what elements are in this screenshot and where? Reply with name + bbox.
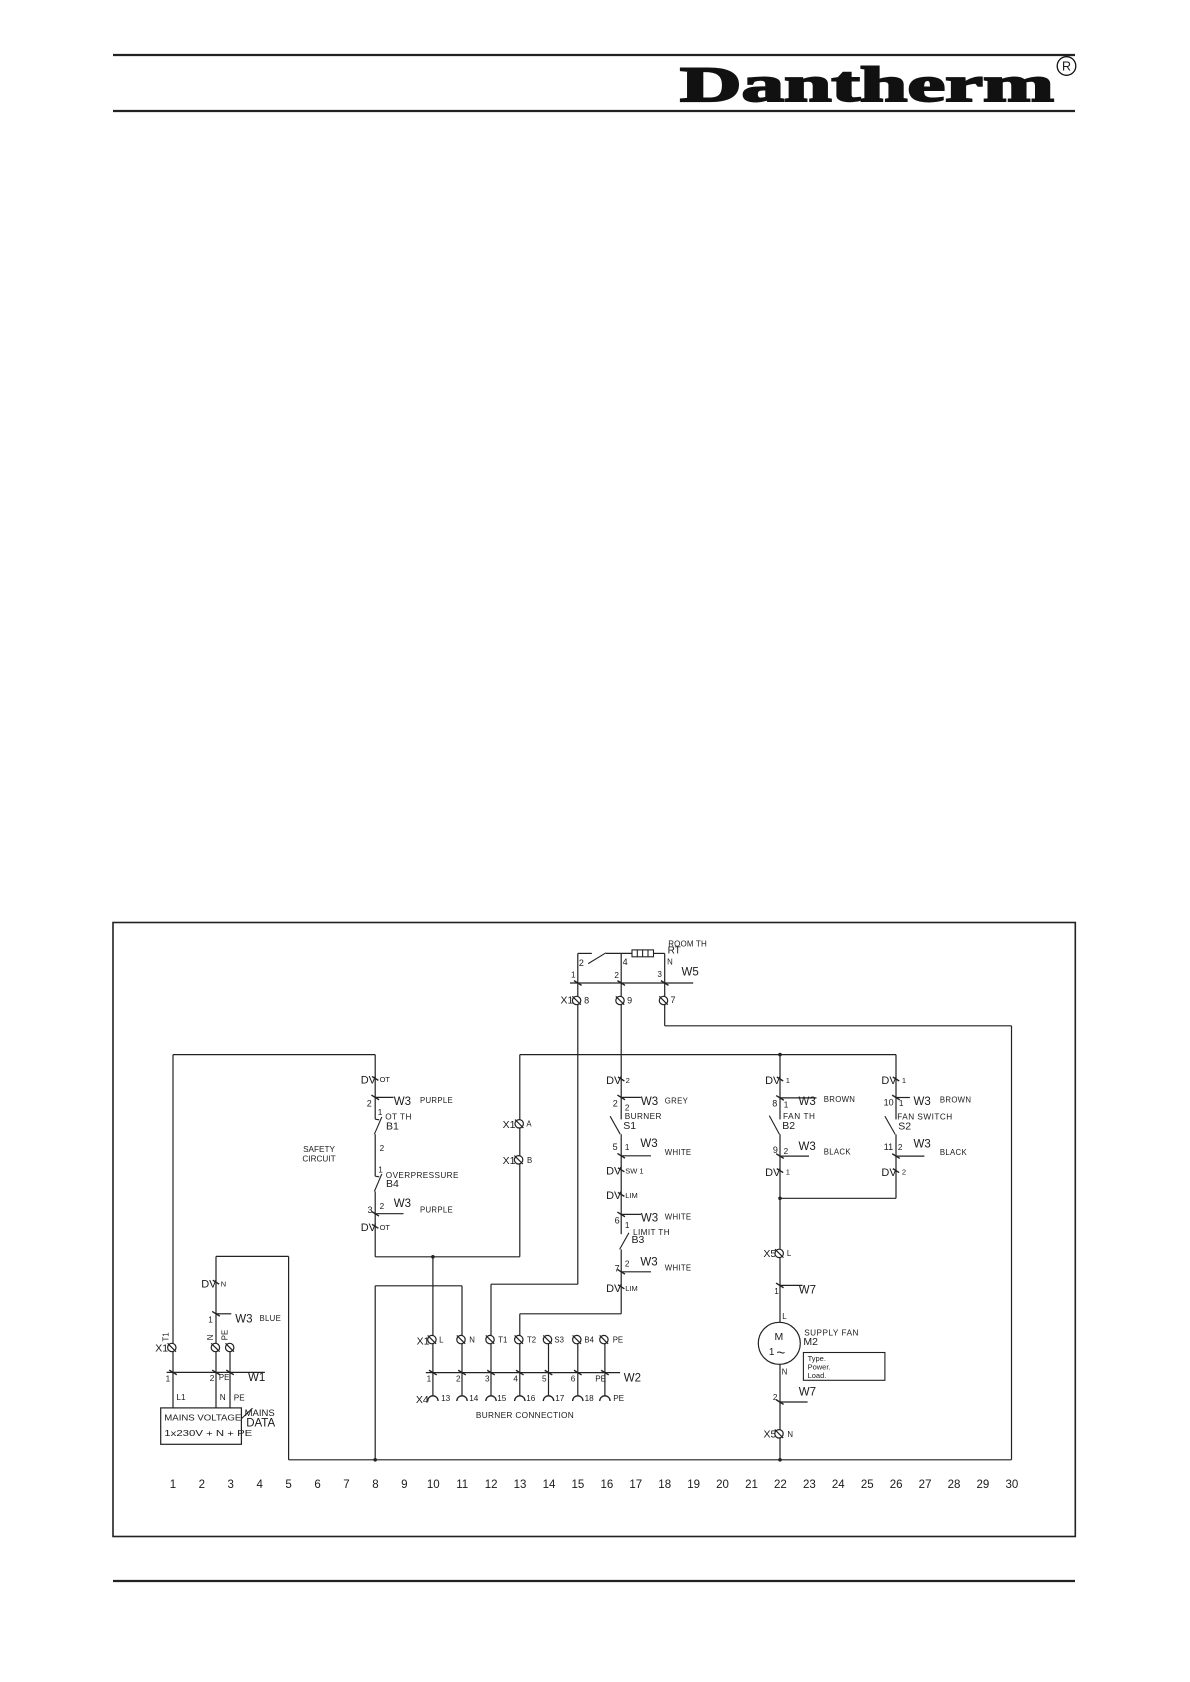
label WHITE1: [665, 1148, 692, 1157]
tick W5 pin1: [574, 981, 582, 986]
net label DV 1 B2top: [765, 1075, 790, 1087]
wire T1 to W2: [490, 1344, 492, 1396]
stub W3 black s2: [896, 1155, 924, 1157]
svg-text:N: N: [782, 1368, 788, 1377]
svg-text:W1: W1: [248, 1372, 265, 1384]
svg-text:8: 8: [372, 1479, 378, 1491]
svg-text:22: 22: [774, 1479, 787, 1491]
label 1 right b2: [784, 1101, 789, 1110]
svg-text:2: 2: [380, 1202, 385, 1211]
terminal X1:PE mains: [226, 1343, 234, 1351]
svg-text:2: 2: [367, 1098, 372, 1108]
contact foot B4: [375, 1175, 379, 1178]
label W5: [682, 966, 699, 978]
label ROOM TH: [668, 939, 707, 948]
svg-text:N: N: [469, 1336, 475, 1345]
label X1 A: [503, 1119, 516, 1131]
terminal X1:B4 burner: [573, 1335, 581, 1343]
svg-text:B: B: [527, 1156, 532, 1165]
label W1: [248, 1372, 265, 1384]
svg-text:16: 16: [600, 1479, 613, 1491]
svg-text:1: 1: [902, 1076, 906, 1085]
svg-text:1x230V + N + PE: 1x230V + N + PE: [164, 1428, 253, 1438]
wire bus A: [216, 1255, 289, 1257]
label SUPPLY FAN: [804, 1328, 859, 1337]
svg-text:A: A: [526, 1120, 532, 1129]
terminal X5:N: [775, 1430, 783, 1438]
label X4 18: [585, 1394, 595, 1403]
wire T1 to W1: [172, 1352, 174, 1408]
svg-text:W3: W3: [640, 1257, 657, 1269]
net label DV OT top: [361, 1074, 391, 1086]
mains data leader: [242, 1408, 253, 1418]
label N mains: [220, 1393, 226, 1402]
tick DV 2 top: [618, 1077, 624, 1081]
svg-text:R: R: [1062, 60, 1071, 74]
tick W1-2: [212, 1370, 220, 1375]
svg-text:17: 17: [629, 1479, 642, 1491]
wire N burner down: [461, 1286, 463, 1336]
svg-text:1: 1: [571, 971, 576, 980]
svg-text:X4: X4: [416, 1394, 429, 1406]
junction dot neutral drop: [373, 1458, 377, 1462]
label T2 burner: [527, 1336, 536, 1345]
label M2: [803, 1336, 818, 1348]
label B3: [632, 1234, 645, 1246]
label N x5: [787, 1430, 793, 1439]
svg-text:19: 19: [687, 1479, 700, 1491]
svg-text:1: 1: [899, 1099, 904, 1108]
label SAFETY CIRCUIT: [302, 1145, 335, 1164]
svg-text:M: M: [775, 1331, 784, 1343]
svg-text:T1: T1: [498, 1336, 507, 1345]
label N motor: [782, 1368, 788, 1377]
label L motor: [782, 1312, 787, 1321]
svg-text:11: 11: [884, 1142, 893, 1152]
svg-text:S3: S3: [554, 1336, 564, 1345]
svg-text:11: 11: [456, 1479, 468, 1491]
label 1 w7: [774, 1287, 779, 1296]
label X4 16: [526, 1394, 536, 1403]
svg-text:LIM: LIM: [625, 1191, 638, 1200]
svg-text:L: L: [787, 1249, 792, 1258]
svg-text:14: 14: [543, 1479, 556, 1491]
net label DV 1 B2bot: [765, 1167, 790, 1179]
wire room th stub from node 2: [578, 952, 592, 954]
motor M2 supply fan: [758, 1322, 800, 1364]
connector X4:15 arc: [486, 1396, 496, 1401]
label FAN TH: [783, 1112, 816, 1121]
tick W2-3: [487, 1370, 495, 1375]
svg-text:PE: PE: [234, 1394, 245, 1403]
svg-text:DV: DV: [361, 1074, 377, 1086]
label PE rotated: [220, 1330, 229, 1340]
svg-text:2: 2: [199, 1479, 205, 1491]
node 2 label: [579, 958, 584, 968]
svg-text:3: 3: [368, 1205, 373, 1215]
label GREY: [665, 1096, 689, 1105]
label 1 s1: [625, 1143, 630, 1152]
svg-text:24: 24: [832, 1479, 845, 1491]
svg-text:PE: PE: [220, 1330, 229, 1340]
svg-text:30: 30: [1005, 1479, 1018, 1491]
svg-text:DV: DV: [201, 1278, 217, 1290]
label W2 pin 1: [427, 1375, 432, 1384]
switch S2 blade: [885, 1116, 895, 1134]
svg-text:W3: W3: [799, 1141, 816, 1153]
label X4 14: [469, 1394, 479, 1403]
svg-text:W7: W7: [799, 1387, 816, 1399]
stub W3 grey: [621, 1096, 641, 1098]
label X5 L: [763, 1248, 776, 1260]
connector X4:18 arc: [573, 1396, 583, 1401]
terminal X1:7: [659, 996, 667, 1004]
label W3 purple top: [394, 1096, 411, 1108]
svg-text:7: 7: [671, 995, 676, 1005]
wire node4 vertical: [620, 953, 622, 996]
wire S2 top: [895, 1055, 897, 1120]
label 9: [773, 1145, 778, 1155]
label PE w1: [219, 1373, 229, 1382]
wire X1AB top: [519, 1055, 521, 1257]
svg-text:26: 26: [890, 1479, 903, 1491]
svg-text:CIRCUIT: CIRCUIT: [302, 1155, 335, 1164]
label W3 black s2: [914, 1139, 931, 1151]
wire T1 across: [491, 1283, 578, 1285]
tick DV2 S2 bot: [893, 1169, 899, 1173]
tick W2-6: [574, 1370, 582, 1375]
svg-text:GREY: GREY: [665, 1096, 689, 1105]
tick W2-5: [545, 1370, 553, 1375]
wire neutral drop left: [288, 1256, 290, 1459]
terminal X1:L burner: [428, 1335, 436, 1343]
junction dot B2 top: [778, 1053, 782, 1057]
svg-text:10: 10: [884, 1097, 894, 1107]
label W2 pin 5: [542, 1375, 547, 1384]
svg-text:DV: DV: [881, 1075, 897, 1087]
tick DV1 S2 top: [893, 1077, 899, 1081]
svg-text:LIM: LIM: [625, 1284, 638, 1293]
label 1 B4 top: [378, 1166, 383, 1175]
wire B2 mid: [779, 1134, 781, 1253]
label X4 PE: [613, 1394, 624, 1403]
svg-text:OT: OT: [380, 1223, 391, 1232]
tick W3-11 black: [892, 1154, 900, 1159]
svg-text:WHITE: WHITE: [665, 1264, 692, 1273]
svg-text:9: 9: [627, 996, 632, 1006]
junction dot B2/S2: [778, 1197, 782, 1201]
switch B4 blade: [374, 1174, 381, 1191]
wire B4 down: [374, 1191, 376, 1256]
svg-text:13: 13: [441, 1394, 451, 1403]
svg-text:W3: W3: [641, 1213, 658, 1225]
svg-text:12: 12: [485, 1479, 498, 1491]
svg-text:PE: PE: [219, 1373, 229, 1382]
label FAN SWITCH: [897, 1113, 953, 1122]
svg-text:20: 20: [716, 1479, 729, 1491]
wire B4 to W2: [577, 1344, 579, 1396]
cable W5 line: [570, 982, 693, 984]
svg-text:21: 21: [745, 1479, 758, 1491]
terminal X1:PE burner: [600, 1335, 608, 1343]
svg-text:29: 29: [977, 1479, 990, 1491]
label 2 B4 bottom: [380, 1202, 385, 1211]
svg-text:L: L: [439, 1336, 444, 1345]
wire N to W2: [461, 1344, 463, 1396]
terminal X1:N mains: [211, 1343, 219, 1351]
stub W3 black b2: [780, 1155, 809, 1157]
tick W3-7 white: [617, 1269, 625, 1274]
svg-text:23: 23: [803, 1479, 816, 1491]
label W7 top: [799, 1284, 816, 1296]
svg-text:2: 2: [380, 1144, 385, 1153]
registered trademark symbol: [1057, 57, 1076, 76]
terminal X1:T1 burner: [486, 1335, 494, 1343]
svg-text:RT: RT: [668, 945, 681, 956]
stub W3 brown B2: [780, 1097, 817, 1099]
net label DV LIM b: [606, 1283, 638, 1295]
cable W1 line: [167, 1371, 265, 1373]
tick W2-1: [429, 1370, 437, 1375]
label OT TH: [385, 1113, 412, 1122]
wire bus B: [375, 1256, 520, 1258]
svg-text:5: 5: [542, 1375, 547, 1384]
svg-text:1: 1: [786, 1167, 790, 1176]
svg-text:PE: PE: [613, 1394, 624, 1403]
svg-text:W3: W3: [394, 1198, 411, 1210]
room thermostat switch blade: [588, 953, 606, 964]
svg-text:6: 6: [314, 1479, 320, 1491]
svg-text:1: 1: [784, 1101, 789, 1110]
svg-text:WHITE: WHITE: [665, 1148, 692, 1157]
svg-text:4: 4: [256, 1479, 263, 1491]
svg-text:6: 6: [615, 1215, 620, 1225]
label N room th: [667, 958, 673, 967]
svg-text:W7: W7: [799, 1284, 816, 1296]
resistor RT room thermostat: [632, 950, 654, 957]
label LIMIT TH: [633, 1228, 670, 1237]
svg-text:N: N: [220, 1393, 226, 1402]
svg-text:W3: W3: [235, 1313, 252, 1325]
svg-text:18: 18: [658, 1479, 671, 1491]
svg-text:DV: DV: [606, 1283, 622, 1295]
wire top bus: [520, 1054, 896, 1056]
connector X4:14 arc: [457, 1396, 467, 1401]
wire T1 left down: [172, 1055, 174, 1344]
label BURNER CONNECTION: [476, 1410, 574, 1420]
svg-text:B2: B2: [782, 1120, 795, 1132]
contact foot B1: [375, 1118, 379, 1121]
terminal X1:B: [514, 1156, 522, 1164]
wire N across to right: [665, 1025, 1012, 1027]
svg-text:B1: B1: [386, 1120, 399, 1132]
label 2 left: [367, 1098, 372, 1108]
wire PE to W2: [604, 1344, 606, 1396]
wire RT to N corner: [654, 952, 665, 954]
label X5 N: [764, 1428, 777, 1440]
wire L to W2: [432, 1344, 434, 1396]
net label DV LIM a: [606, 1190, 638, 1202]
label MAINS VOLTAGE: [164, 1412, 242, 1422]
label W2: [624, 1373, 641, 1385]
wire T1 down: [490, 1284, 492, 1335]
svg-text:7: 7: [343, 1479, 349, 1491]
switch S1 blade: [610, 1116, 620, 1134]
label 6: [615, 1215, 620, 1225]
label B4 burner: [584, 1336, 594, 1345]
tick W3-2 grey: [617, 1095, 625, 1100]
label DATA: [246, 1418, 275, 1430]
stub W3 white1: [621, 1155, 651, 1157]
motor data box: [803, 1353, 885, 1381]
svg-text:6: 6: [571, 1375, 576, 1384]
svg-text:M2: M2: [803, 1336, 818, 1348]
wire B1 to B4: [374, 1134, 376, 1176]
label BLUE: [260, 1314, 282, 1323]
svg-text:1: 1: [769, 1347, 775, 1358]
tick W5 pin2: [617, 981, 625, 986]
tick W3-5 white: [617, 1153, 625, 1158]
label 1x230V + N + PE: [164, 1428, 253, 1438]
tick W3-1 blue: [212, 1311, 220, 1316]
stub W3 white3: [621, 1271, 651, 1273]
svg-text:1: 1: [170, 1479, 176, 1491]
label L1: [176, 1393, 186, 1402]
svg-text:BLACK: BLACK: [824, 1148, 852, 1157]
label W3 white3: [640, 1257, 657, 1269]
label B4: [386, 1178, 399, 1190]
svg-text:OT: OT: [380, 1075, 391, 1084]
stub W3 purple bottom: [375, 1213, 403, 1215]
tick DV LIM b: [618, 1285, 624, 1289]
label 2 s2: [898, 1143, 903, 1152]
svg-text:5: 5: [285, 1479, 291, 1491]
stub W3 blue: [216, 1313, 231, 1315]
svg-text:9: 9: [401, 1479, 407, 1491]
label 1 b3: [625, 1221, 630, 1230]
wire X1:8 down: [577, 1005, 579, 1285]
svg-text:2: 2: [898, 1143, 903, 1152]
wire B3 down: [620, 1249, 622, 1313]
label W2 pin PE: [595, 1375, 606, 1384]
label W3 purple bottom: [394, 1198, 411, 1210]
label MAINS data: [245, 1408, 275, 1419]
tick DV1 B2 bot: [777, 1169, 783, 1173]
svg-text:25: 25: [861, 1479, 874, 1491]
terminal X1:T1: [168, 1343, 176, 1351]
net label DV N: [201, 1278, 226, 1290]
wire B2 top: [779, 1055, 781, 1120]
label 2 b2: [784, 1147, 789, 1156]
svg-text:PURPLE: PURPLE: [420, 1096, 453, 1105]
label S2: [898, 1121, 911, 1133]
pin 2 label: [614, 971, 619, 980]
label BROWN s2: [940, 1095, 971, 1104]
header top rule: [113, 54, 1075, 56]
svg-text:W3: W3: [799, 1096, 816, 1108]
label 8 left: [772, 1099, 777, 1109]
svg-text:2: 2: [784, 1147, 789, 1156]
tick W7-1: [776, 1283, 784, 1288]
label 11: [884, 1142, 893, 1152]
label W7 bottom: [799, 1387, 816, 1399]
label RT: [668, 945, 681, 956]
label X4 15: [497, 1394, 507, 1403]
wire S3 to W2: [548, 1344, 550, 1396]
terminal X1:T2 burner: [515, 1335, 523, 1343]
svg-text:13: 13: [514, 1479, 527, 1491]
label N rotated: [206, 1335, 215, 1341]
svg-text:B4: B4: [584, 1336, 594, 1345]
label T1 rotated: [161, 1332, 170, 1341]
label W2 pin 4: [513, 1375, 518, 1384]
label X1 T1: [155, 1342, 168, 1354]
svg-text:27: 27: [919, 1479, 932, 1491]
stub W3 purple top: [375, 1096, 393, 1098]
svg-text:DV: DV: [606, 1166, 622, 1178]
connector X4:PE arc: [600, 1396, 610, 1401]
svg-text:14: 14: [469, 1394, 479, 1403]
label BURNER: [625, 1112, 662, 1121]
label 1 blue: [208, 1316, 213, 1325]
label S3 burner: [554, 1336, 564, 1345]
svg-text:SW 1: SW 1: [625, 1167, 643, 1176]
tick DV N: [213, 1280, 219, 1284]
wire safety top: [374, 1055, 376, 1120]
svg-text:8: 8: [584, 996, 589, 1006]
svg-text:DV: DV: [606, 1190, 622, 1202]
svg-text:BROWN: BROWN: [824, 1095, 855, 1104]
label WHITE3: [665, 1264, 692, 1273]
svg-text:2: 2: [456, 1375, 461, 1384]
svg-text:2: 2: [579, 958, 584, 968]
label X1 top: [561, 995, 574, 1007]
net label DV 2 top: [606, 1075, 630, 1087]
svg-text:N: N: [787, 1430, 793, 1439]
svg-text:X1: X1: [561, 995, 574, 1007]
junction dot L drop: [431, 1255, 435, 1259]
tick DV1 B2 top: [777, 1077, 783, 1081]
net label DV 1 S2top: [881, 1075, 906, 1087]
wire N across: [375, 1285, 462, 1287]
label W3 brown b2: [799, 1096, 816, 1108]
label B2: [782, 1120, 795, 1132]
tick W3-9 black: [776, 1154, 784, 1159]
label 7: [671, 995, 676, 1005]
label T1 burner: [498, 1336, 507, 1345]
svg-text:2: 2: [614, 971, 619, 980]
svg-text:1: 1: [208, 1316, 213, 1325]
svg-text:10: 10: [427, 1479, 440, 1491]
wire DV N down: [215, 1256, 217, 1343]
stub W3 white2: [621, 1213, 641, 1215]
svg-text:BLUE: BLUE: [260, 1314, 282, 1323]
svg-text:DV: DV: [881, 1167, 897, 1179]
label PURPLE bottom: [420, 1206, 453, 1215]
tick W1-PE: [226, 1370, 234, 1375]
net label DV 2 S2bot: [881, 1167, 906, 1179]
label 2 right grey: [625, 1104, 630, 1113]
svg-text:2: 2: [625, 1260, 630, 1269]
svg-text:3: 3: [657, 970, 662, 979]
tick W3-3 purple: [371, 1211, 379, 1216]
label 1 w1: [166, 1374, 171, 1383]
label 5: [613, 1142, 618, 1152]
svg-text:1: 1: [427, 1375, 432, 1384]
label BLACK s2: [940, 1148, 968, 1157]
svg-text:S1: S1: [623, 1120, 636, 1132]
wire X1:9 down: [620, 1005, 622, 1120]
